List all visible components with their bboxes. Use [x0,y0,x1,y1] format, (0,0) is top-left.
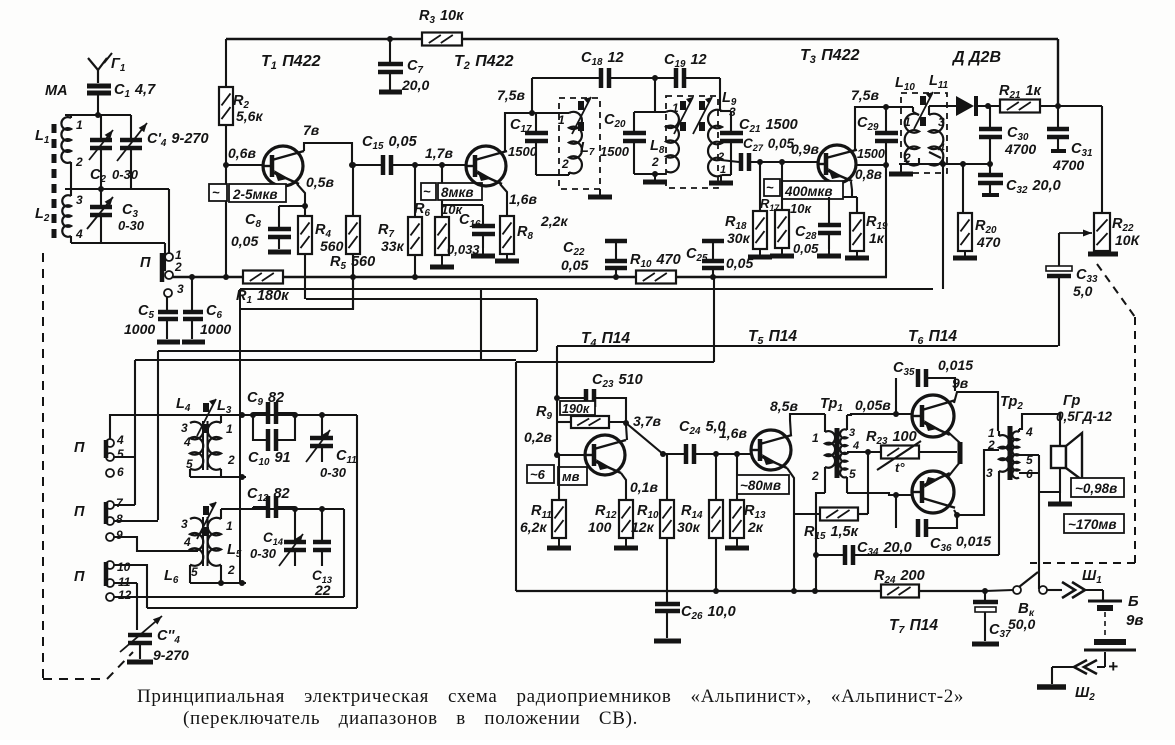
svg-text:С21 1500: С21 1500 [739,117,798,135]
svg-text:560: 560 [320,238,344,254]
wire Tp1 pin4 center tap [847,451,881,453]
variable capacitor C4'' 9-270 [120,616,162,652]
resistor R4 560 [298,216,312,254]
emitter junction bar [958,442,963,464]
svg-text:1к: 1к [869,230,885,246]
box measurement 6mv [527,465,554,483]
shield box L7 dashed [559,98,600,189]
wire T6 lower collector [954,450,999,515]
capacitor C1 4,7 [87,84,111,89]
svg-text:470: 470 [976,234,1001,250]
box measurement 170mv [1064,514,1124,533]
svg-text:2: 2 [227,453,235,467]
resistor R9 190k [560,401,595,415]
capacitor C26 10,0 [666,591,668,602]
svg-text:7,5в: 7,5в [851,87,879,103]
svg-text:0-30: 0-30 [118,218,145,233]
svg-text:мв: мв [562,469,580,484]
svg-text:4: 4 [75,227,83,241]
feedback line C34 [816,554,845,556]
svg-text:12: 12 [118,588,132,602]
svg-text:9-270: 9-270 [153,647,189,663]
svg-text:1: 1 [558,113,565,127]
wire contact8 to line A [114,520,158,522]
svg-text:МА: МА [45,83,68,99]
capacitor C16 0,033 [442,204,483,206]
capacitor C28 0,05 [828,197,830,223]
svg-text:2: 2 [987,438,995,452]
svg-text:10К: 10К [1115,232,1141,248]
transistor T1 [263,146,303,186]
wire Tp2 pin3 feedback [998,475,1000,555]
trimmer L7 [578,101,584,110]
wire to volume control [1101,106,1103,213]
wire AGC drop to band switch [239,289,241,583]
svg-text:1: 1 [226,422,233,436]
wire jog under rail [240,277,353,309]
svg-text:Т2 П422: Т2 П422 [454,53,514,72]
wire tank top line [222,414,357,416]
svg-text:~170мв: ~170мв [1068,517,1117,532]
svg-text:С34 20,0: С34 20,0 [857,540,912,558]
ground L7 box [599,189,601,195]
svg-text:5: 5 [191,565,198,579]
trimmer L8 [680,101,686,110]
svg-text:t°: t° [895,460,905,475]
capacitor C37 50,0 [984,591,986,600]
capacitor C7 20,0 [389,39,391,62]
capacitor C6 1000 [191,277,193,310]
coil L2 [70,189,72,196]
resistor R5 560 [352,165,354,216]
svg-text:(переключатель диапазонов в по: (переключатель диапазонов в положении СВ… [183,708,638,729]
svg-text:8,5в: 8,5в [770,398,798,414]
svg-text:С26 10,0: С26 10,0 [681,604,736,622]
capacitor C17 1500 [535,113,537,131]
svg-text:2-5мкв: 2-5мкв [232,187,278,202]
svg-text:5,0: 5,0 [1073,283,1093,299]
svg-text:3: 3 [76,193,83,207]
wire contact12 line [114,596,344,598]
svg-text:1500: 1500 [857,147,885,161]
trimmer L9 [699,101,705,110]
coil L11 [929,114,943,166]
box measurement 8mkv [421,183,436,200]
transistor T2 [466,146,506,186]
resistor R2 5,6k [225,39,227,87]
node T2 base [412,162,418,168]
svg-text:1: 1 [76,118,83,132]
svg-text:12к: 12к [631,519,655,535]
svg-text:~: ~ [423,184,431,199]
svg-text:0,9в: 0,9в [791,141,819,157]
coil L1 [61,117,71,163]
resistor R18 30k [759,162,761,211]
svg-text:33к: 33к [381,238,405,254]
svg-text:8: 8 [116,512,123,526]
svg-text:2: 2 [561,157,569,171]
svg-text:С15 0,05: С15 0,05 [362,134,418,152]
capacitor C31 4700 [1057,106,1059,127]
plug Sh2 arrows [1084,660,1097,674]
svg-text:С23 510: С23 510 [592,372,643,390]
wire L2 bottom to contact 2 [70,236,72,243]
svg-text:190к: 190к [562,402,590,416]
wire contact7 to line B [114,504,135,506]
wire contact11 to C4'' [114,582,137,584]
svg-text:1,6в: 1,6в [719,425,747,441]
svg-text:3,7в: 3,7в [633,413,661,429]
diode D2V [956,96,974,116]
ground L9 [720,175,722,181]
capacitor C36 0,015 [893,492,899,498]
svg-text:С'4 9-270: С'4 9-270 [147,131,209,149]
svg-text:3: 3 [181,517,188,531]
svg-text:С27 0,05: С27 0,05 [743,136,794,153]
wire T4 collector [626,425,627,440]
capacitor C10 91 [266,429,271,451]
ground C7 [379,90,402,95]
svg-text:9в: 9в [1126,612,1143,629]
ground L10 [918,158,920,164]
resistor R11 6,2k [558,455,560,500]
box measurement 80mv [737,475,789,494]
dashed tuning gang link [42,253,44,679]
wire T3 collector [855,107,913,150]
svg-text:2: 2 [174,260,182,274]
svg-text:~: ~ [212,185,220,200]
capacitor C35 0,015 [895,378,897,414]
svg-text:4: 4 [116,433,124,447]
svg-text:6,2к: 6,2к [520,519,547,535]
ground Sh2 [1037,684,1066,690]
svg-text:0-30: 0-30 [250,546,277,561]
antenna G1 [97,70,99,83]
thermistor R23 100 [881,446,919,459]
svg-text:П: П [74,440,85,456]
wire main ground rail [172,276,887,278]
capacitor C24 5,0 [663,453,684,455]
svg-text:1500: 1500 [600,144,630,159]
wire L11 pin4 AGC [929,152,941,158]
resistor R10 470 on rail [636,271,676,284]
svg-text:2: 2 [903,151,911,165]
wire T5 collector to Tp1 [790,414,825,436]
capacitor C25 0,05 [702,239,724,244]
svg-text:4: 4 [1025,425,1033,439]
capacitor C22 0,05 [605,239,627,244]
svg-text:5: 5 [186,457,193,471]
svg-text:Б: Б [1128,593,1139,610]
svg-text:4: 4 [183,535,191,549]
wire outer box right edge [356,415,358,608]
transistor T6 lower [912,471,954,513]
svg-text:3: 3 [177,282,184,296]
wire detector output node [899,163,991,165]
svg-text:С9 82: С9 82 [247,390,284,408]
resistor R6 10k [439,162,445,168]
svg-text:1: 1 [226,519,233,533]
capacitor C21 1500 [722,110,731,112]
svg-text:6: 6 [117,465,124,479]
svg-text:С1 4,7: С1 4,7 [114,82,156,100]
trimmer L5 [203,506,209,515]
svg-text:0,033: 0,033 [447,242,480,257]
wire AGC line [240,288,933,290]
svg-text:R15 1,5к: R15 1,5к [804,524,859,542]
svg-text:3: 3 [938,115,945,129]
ground L8 [652,171,658,177]
wire T2 emitter [500,184,507,216]
resistor R13 2k [736,454,738,500]
svg-text:2: 2 [811,469,819,483]
coil L9 [720,110,722,112]
svg-text:П: П [74,504,85,520]
svg-text:1: 1 [812,431,819,445]
svg-text:4: 4 [937,141,945,155]
resistor R12 100 [619,500,633,538]
wire inner box right edge [343,509,345,597]
svg-text:П: П [74,569,85,585]
svg-text:0,5ГД-12: 0,5ГД-12 [1056,409,1112,424]
wire to plug Sh1 [1047,589,1062,591]
svg-text:0-30: 0-30 [112,167,139,182]
dashed link volume to switch [1097,264,1135,317]
svg-text:Т1 П422: Т1 П422 [261,53,321,72]
svg-text:Т6 П14: Т6 П14 [908,328,957,347]
capacitor C5 1000 [166,297,168,310]
svg-text:5,6к: 5,6к [236,108,263,124]
ferrite core dashed [52,124,57,238]
box measurement 0,98v [1071,478,1124,497]
coil L10 [912,107,914,112]
node T1 base 0,6v [223,162,229,168]
svg-text:400мкв: 400мкв [784,184,833,199]
svg-text:Т5 П14: Т5 П14 [748,328,797,347]
svg-text:0,8в: 0,8в [855,167,882,182]
wire T1 collector [304,143,352,165]
resistor R21 1k [1000,100,1040,113]
svg-text:30к: 30к [727,230,751,246]
resistor R20 470 [962,164,964,213]
capacitor C29 1500 [885,107,887,131]
wire T6 upper collector [954,392,998,431]
resistor R3 10k [422,33,462,46]
svg-text:0,05: 0,05 [561,257,588,273]
svg-text:10к: 10к [790,201,812,216]
wire Tp1 pin5 to T6 lower base [847,493,912,495]
wire riser to C18 [531,78,533,113]
battery B 9v [1102,590,1104,600]
wire oscillator feedback line A [158,350,537,352]
resistor R7 33k [414,165,416,217]
svg-text:+: + [1108,657,1118,676]
wire Tp1 pin2 down [816,493,825,591]
svg-text:2,2к: 2,2к [540,213,568,229]
wire T5 emitter [787,468,794,591]
plug Sh1 arrows [1062,582,1075,598]
svg-text:Т3 П422: Т3 П422 [800,47,860,66]
wire top supply rail [226,38,1058,40]
svg-text:R10 470: R10 470 [630,252,681,270]
resistor R15 1,5k [794,513,820,515]
wire contact9 to L6 [114,537,198,551]
svg-text:5: 5 [849,467,856,481]
trimmer L4 [203,403,209,412]
capacitor C32 20,0 [989,164,991,173]
svg-text:1000: 1000 [124,321,155,337]
trimmer capacitor C14 0-30 [294,509,296,540]
switch Vk [985,590,1013,591]
wire audio block left edge [713,277,715,362]
resistor R24 200 [881,585,919,598]
wire tank bottom [189,469,191,477]
svg-text:Т4 П14: Т4 П14 [581,330,630,349]
capacitor C15 0,05 [352,164,381,166]
trimmer capacitor C11 0-30 [321,415,323,436]
trimmer capacitor C3 0-30 [100,189,102,205]
wire C18-C19 node to L8 [654,78,656,112]
svg-text:0,05: 0,05 [793,241,819,256]
capacitor C19 12 [674,68,679,88]
svg-text:~6: ~6 [530,467,546,482]
capacitor C20 1500 [634,111,666,113]
capacitor C27 0,05 [721,160,739,162]
transistor T4 [585,435,625,475]
svg-text:С32 20,0: С32 20,0 [1006,178,1061,196]
svg-text:3: 3 [986,466,993,480]
svg-text:~0,98в: ~0,98в [1075,481,1117,496]
variable capacitor C4' 9-270 [120,138,142,143]
svg-text:0,05: 0,05 [726,255,753,271]
resistor R14 30k [715,454,717,500]
coil L7 [536,112,569,114]
shield box L8-L9 trimmers dashed [666,96,718,188]
svg-text:0,2в: 0,2в [524,429,552,445]
svg-text:R23 100: R23 100 [866,429,917,447]
capacitor C23 510 [557,397,586,399]
resistor R19 1k [856,197,858,213]
svg-text:4: 4 [852,440,859,452]
svg-text:П: П [140,255,151,271]
svg-text:7в: 7в [303,122,320,138]
wire T4 emitter [621,473,626,500]
svg-text:Гр: Гр [1063,393,1081,409]
svg-text:2к: 2к [747,519,764,535]
svg-text:1: 1 [672,101,679,115]
svg-text:4700: 4700 [1004,141,1036,157]
svg-text:0-30: 0-30 [320,465,347,480]
wire volume line to T4 [557,345,1058,347]
wire tap to R15 [867,452,869,514]
svg-text:2: 2 [227,563,235,577]
svg-text:0,05: 0,05 [231,233,258,249]
capacitor C34 20,0 [843,545,848,565]
svg-text:3: 3 [849,427,855,439]
wire outer box bottom [147,607,357,609]
svg-text:7,5в: 7,5в [497,87,525,103]
svg-text:1,7в: 1,7в [425,145,453,161]
svg-text:~: ~ [766,180,774,195]
svg-text:R3 10к: R3 10к [419,8,464,26]
wire L1 bottom net to contact 1 [70,162,72,189]
wire T3 emitter [851,182,852,197]
svg-text:3: 3 [181,421,188,435]
svg-text:10: 10 [117,560,131,574]
svg-text:8мкв: 8мкв [441,185,474,200]
audio ground rail [516,590,985,592]
wire T4 base column [556,346,558,455]
svg-text:0,6в: 0,6в [228,145,256,161]
potentiometer R22 10k [1094,213,1110,251]
svg-text:0,1в: 0,1в [630,479,658,495]
svg-text:30к: 30к [677,519,701,535]
transistor T5 [751,430,791,470]
wire speaker return [1019,454,1039,456]
wire crossing drop [480,289,482,360]
wire T6 lower emitter [948,462,960,477]
svg-text:1: 1 [904,115,911,129]
wire T1 emitter [297,184,305,206]
svg-text:2: 2 [75,155,83,169]
wire L3 pin1 to C9 line [220,415,222,423]
svg-text:R5 560: R5 560 [330,254,375,272]
wire L5 tank bottom [189,565,191,583]
svg-text:22: 22 [314,582,331,598]
capacitor C18 12 [599,68,604,88]
wire contact4 to tank top [110,415,222,439]
wire Tp1 pin3 to T6 upper base [847,414,912,415]
svg-text:100: 100 [588,519,612,535]
svg-text:5: 5 [117,447,124,461]
wire right supply drop to detector [1057,39,1059,106]
resistor R1 180k [243,271,283,284]
svg-text:9в: 9в [952,375,969,391]
svg-text:4: 4 [183,435,191,449]
wire Tp2 secondary to speaker [1019,414,1060,446]
speaker Gr 0,5GD-12 [1051,446,1066,468]
svg-text:20,0: 20,0 [401,77,429,93]
resistor R17 [781,162,783,210]
shield box L10 L11 dashed [901,93,947,173]
wire T6 upper emitter [948,432,960,443]
box measurement 2-5mkv [209,184,227,201]
variable capacitor C2 0-30 [90,138,112,143]
coil L8 [666,111,679,173]
wire L5 tank top line C12 [220,509,222,519]
resistor R8 2,2k [500,216,514,254]
wire L11 top to diode [928,106,930,115]
resistor R10a 12k [666,454,668,500]
transistor T3 [818,145,856,183]
svg-text:~80мв: ~80мв [740,478,781,493]
wire T2 collector to C17 node [505,113,568,152]
box measurement 400mkv [764,179,780,196]
svg-text:0,5в: 0,5в [306,174,334,190]
wire line B [135,359,516,361]
svg-text:0,05в: 0,05в [855,397,891,413]
svg-text:9: 9 [116,528,123,542]
capacitor C8 0,05 [279,205,305,207]
svg-text:Т7 П14: Т7 П14 [889,617,938,636]
capacitor C33 5,0 [1058,233,1060,266]
wire emitter feedback R4 [306,298,537,300]
wiper arrow R22 [1059,232,1092,234]
svg-text:R1 180к: R1 180к [236,288,289,306]
svg-text:1000: 1000 [200,321,231,337]
wire IF top coupling [532,77,599,79]
trimmer L10 [920,96,926,105]
